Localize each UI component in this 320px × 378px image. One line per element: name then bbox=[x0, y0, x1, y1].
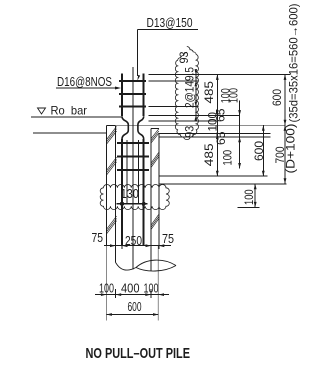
dim line3 600 bbox=[262, 125, 264, 176]
tie 5 bbox=[117, 156, 149, 158]
dim line1 chain 485/65/65/485 bbox=[216, 74, 218, 176]
cage right bar above ground bbox=[143, 74, 145, 117]
extension line tie1 bbox=[149, 80, 197, 82]
cage right bar below ground bbox=[143, 139, 145, 246]
svg-text:100: 100 bbox=[99, 281, 114, 296]
svg-text:D13@150: D13@150 bbox=[147, 15, 193, 30]
inner thin bar left bbox=[126, 140, 128, 204]
hatch left strip upper bbox=[107, 126, 117, 174]
left footing strip inner edge / bore wall bbox=[115, 125, 117, 262]
svg-text:(35d=35x16=560→600): (35d=35x16=560→600) bbox=[286, 4, 300, 123]
footing top right double line a bbox=[159, 132, 271, 134]
dim line4 chain 600/700 bbox=[284, 74, 286, 183]
svg-text:250: 250 bbox=[125, 233, 142, 248]
dim line 600 bottom bbox=[106, 314, 158, 316]
cage left bar below ground bbox=[121, 139, 123, 246]
left footing strip outer edge bbox=[107, 125, 116, 245]
svg-text:75: 75 bbox=[162, 231, 174, 246]
svg-text:93: 93 bbox=[183, 126, 197, 138]
right footing strip outer edge bbox=[158, 133, 160, 245]
svg-text:NO PULL–OUT PILE: NO PULL–OUT PILE bbox=[86, 345, 191, 362]
neck outline left bbox=[122, 116, 128, 139]
pile centerline bbox=[132, 67, 134, 269]
revision cloud vertical (93 2@149.5 93) bbox=[175, 47, 198, 140]
cage left bar above ground bbox=[121, 74, 123, 117]
label D16@8NOS bbox=[56, 74, 121, 90]
footing top line left bbox=[33, 132, 107, 134]
extension line top (rebar top) bbox=[149, 73, 291, 75]
extension line pile cutoff bbox=[159, 175, 268, 177]
revision cloud around 130 bbox=[100, 185, 169, 210]
svg-text:93: 93 bbox=[177, 51, 191, 63]
svg-text:100: 100 bbox=[242, 189, 256, 205]
dim line 100-400-100 bbox=[95, 294, 169, 296]
svg-text:Ro bar: Ro bar bbox=[51, 103, 88, 117]
svg-text:485: 485 bbox=[202, 81, 216, 104]
svg-text:65: 65 bbox=[214, 131, 228, 145]
tie 1 bbox=[119, 80, 146, 82]
dim 100 bottom right bbox=[254, 184, 256, 208]
hatch right strip upper bbox=[151, 129, 159, 168]
svg-text:600: 600 bbox=[128, 299, 142, 314]
extension line tie3 bbox=[149, 106, 197, 108]
footing top right double line b bbox=[159, 136, 271, 138]
Ro bar level line bbox=[31, 116, 122, 118]
inner thin bar right bbox=[138, 140, 140, 204]
label D13@150 bbox=[137, 15, 198, 81]
right footing strip inner edge / bore wall bbox=[151, 129, 159, 271]
extension line waist ref bbox=[116, 124, 285, 126]
hatch left strip lower bbox=[107, 216, 117, 234]
svg-text:75: 75 bbox=[92, 230, 104, 245]
svg-text:(D+100): (D+100) bbox=[286, 123, 298, 173]
svg-text:485: 485 bbox=[202, 143, 216, 166]
tie 6 bbox=[117, 169, 149, 171]
pile shaft break symbol bbox=[116, 263, 136, 271]
tie 2 bbox=[119, 93, 146, 95]
dim line2 chain 100/100 bbox=[239, 100, 241, 168]
svg-text:100: 100 bbox=[221, 150, 235, 166]
bottom tie with end dots / 130 dim line bbox=[117, 203, 148, 205]
svg-text:600: 600 bbox=[252, 141, 266, 161]
svg-text:65: 65 bbox=[214, 108, 228, 122]
tie 3 bbox=[119, 106, 146, 108]
neck outline right bbox=[138, 116, 144, 139]
cloud inner dim chain 93/2@149.5/93 bbox=[193, 69, 198, 121]
extension line waist top bbox=[149, 120, 218, 122]
svg-text:130: 130 bbox=[121, 186, 139, 201]
dim 75/250/75 bbox=[104, 245, 171, 247]
ext line 100-400-100 right inner bbox=[150, 289, 152, 298]
label Ro bar bbox=[38, 103, 88, 117]
svg-text:600: 600 bbox=[270, 89, 284, 106]
svg-text:400: 400 bbox=[121, 281, 140, 296]
hatch right strip lower bbox=[151, 214, 159, 230]
svg-text:100: 100 bbox=[144, 281, 159, 296]
tie 4 bbox=[117, 142, 149, 144]
svg-text:100: 100 bbox=[227, 88, 241, 103]
extension line neck start bbox=[149, 115, 240, 117]
svg-text:2@149.5: 2@149.5 bbox=[183, 67, 197, 108]
extension line pile toe bbox=[159, 183, 287, 185]
ext line 100-400-100 left inner bbox=[115, 289, 117, 298]
svg-text:D16@8NOS: D16@8NOS bbox=[57, 74, 112, 89]
